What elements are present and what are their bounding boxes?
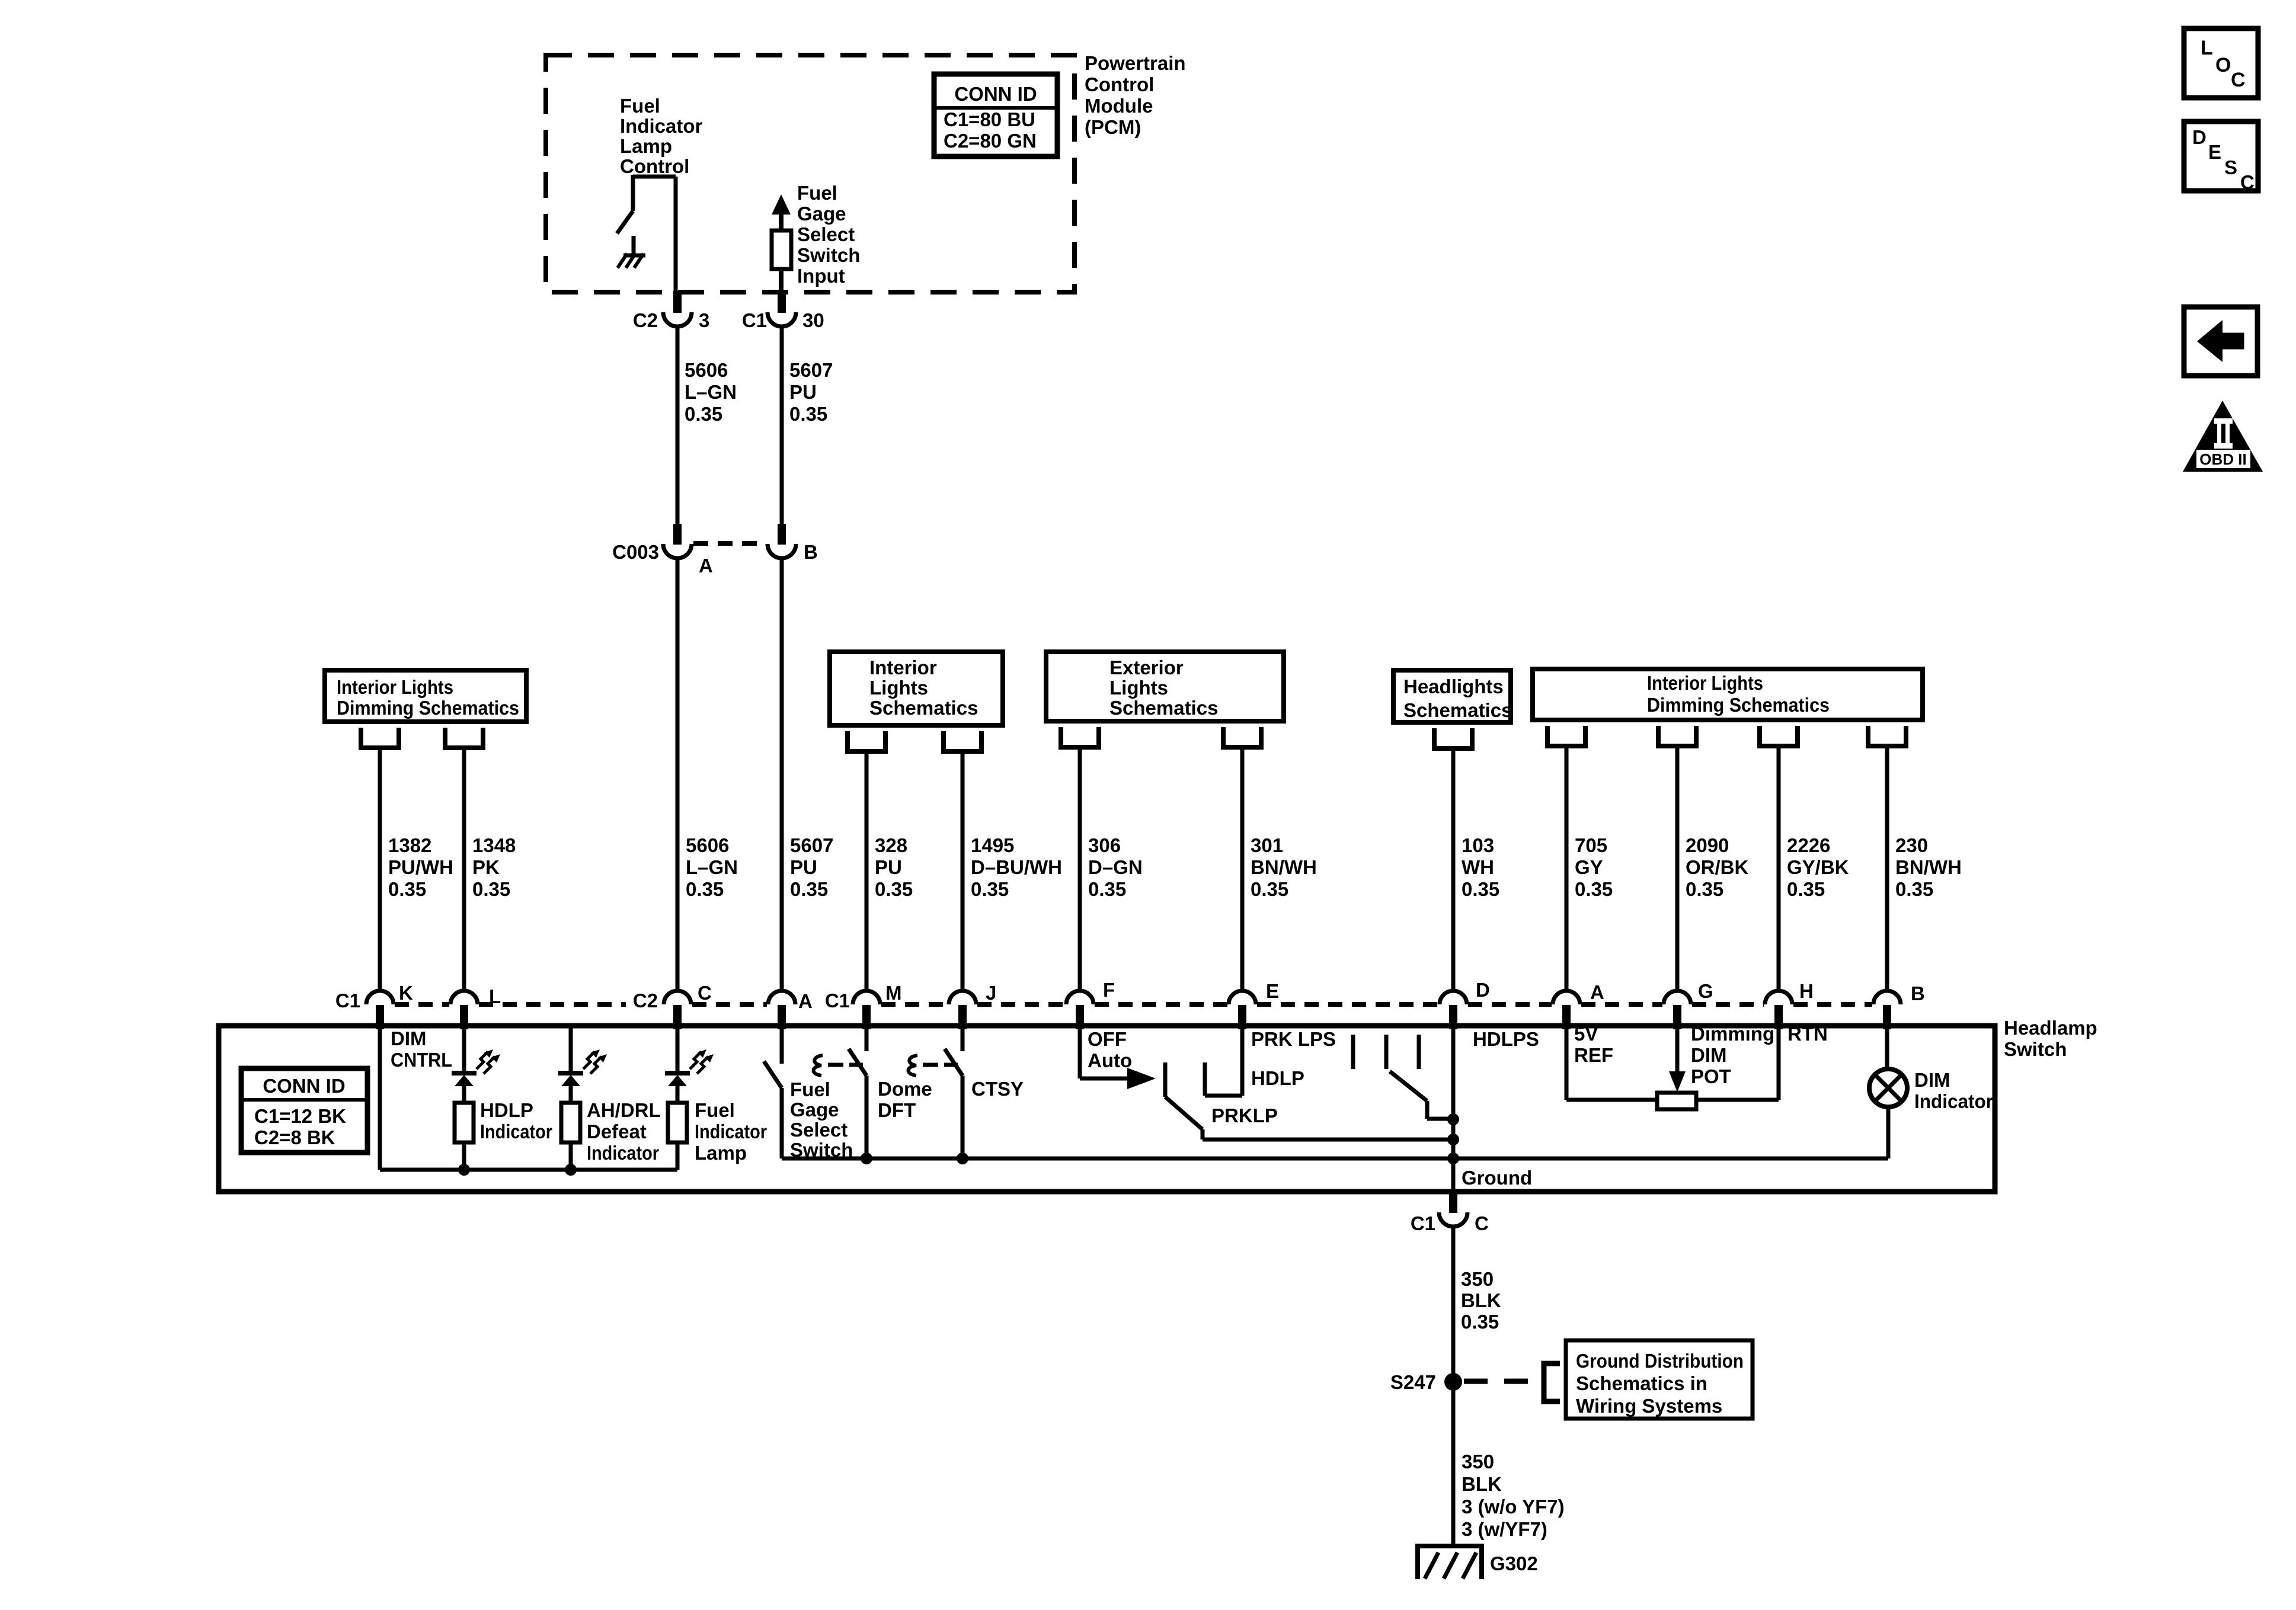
tab J wire <box>944 731 981 751</box>
svg-text:WH: WH <box>1462 856 1494 878</box>
svg-text:S247: S247 <box>1390 1371 1436 1393</box>
svg-text:C1: C1 <box>1411 1212 1435 1234</box>
connector pin D at x=2452 <box>1440 991 1467 1004</box>
svg-text:Gage: Gage <box>790 1099 839 1121</box>
svg-text:0.35: 0.35 <box>1462 878 1499 900</box>
svg-text:CNTRL: CNTRL <box>391 1049 452 1071</box>
svg-text:Fuel: Fuel <box>797 182 837 204</box>
svg-text:K: K <box>399 982 413 1004</box>
svg-text:AH/DRL: AH/DRL <box>587 1099 661 1121</box>
headlamp switch box <box>219 1026 1995 1192</box>
wire 2090 to pin G <box>1675 746 1680 991</box>
connector pin L at x=783 <box>450 991 478 1004</box>
svg-text:Fuel: Fuel <box>790 1078 830 1100</box>
icon OBD II triangle <box>2183 401 2263 472</box>
svg-text:Switch: Switch <box>2004 1038 2067 1060</box>
wire 350 BLK to S247 <box>1451 1227 1456 1382</box>
svg-text:0.35: 0.35 <box>875 878 913 900</box>
svg-text:F: F <box>1103 979 1115 1001</box>
svg-text:HDLPS: HDLPS <box>1473 1028 1539 1050</box>
svg-text:1382: 1382 <box>388 834 431 856</box>
svg-text:DIM: DIM <box>1691 1044 1727 1066</box>
svg-text:Interior Lights: Interior Lights <box>337 676 453 698</box>
svg-text:Defeat: Defeat <box>587 1121 647 1142</box>
svg-text:Schematics: Schematics <box>869 697 978 719</box>
wire 5606 C003 to headlamp switch C <box>676 558 680 991</box>
svg-text:OBD II: OBD II <box>2199 450 2246 468</box>
connector pin A at x=2643 <box>1553 991 1580 1004</box>
junction dot J at rail <box>957 1153 968 1164</box>
switch Fuel Gage Select (pin A) <box>780 1026 784 1064</box>
svg-text:0.35: 0.35 <box>1088 878 1126 900</box>
pin C1-30 connector <box>778 291 786 313</box>
svg-text:350: 350 <box>1462 1451 1494 1473</box>
wire 1348 to pin L <box>462 748 466 991</box>
ground G302 <box>1418 1544 1482 1548</box>
icon back arrow <box>2184 307 2257 376</box>
box Headlights Schematics <box>1393 670 1511 722</box>
wire 5606 PCM to C003 <box>676 326 680 526</box>
svg-text:0.35: 0.35 <box>1787 878 1825 900</box>
svg-text:BLK: BLK <box>1461 1289 1501 1311</box>
connector pin E at x=2096 <box>1229 991 1256 1004</box>
svg-text:E: E <box>2208 141 2221 163</box>
svg-text:5V: 5V <box>1574 1023 1598 1045</box>
CONN ID box (headlamp switch) <box>241 1068 367 1153</box>
connector pin C1-C ground <box>1449 1193 1457 1213</box>
tab E wire <box>1223 727 1261 747</box>
svg-text:Indicator: Indicator <box>620 115 703 137</box>
svg-text:PRKLP: PRKLP <box>1211 1105 1278 1126</box>
connector C003-A <box>673 524 682 545</box>
svg-text:A: A <box>798 990 813 1012</box>
svg-text:C003: C003 <box>612 541 659 563</box>
svg-text:Schematics: Schematics <box>1109 697 1218 719</box>
svg-text:DFT: DFT <box>878 1099 916 1121</box>
wire 328 to pin M <box>865 751 869 991</box>
svg-text:5606: 5606 <box>685 359 728 381</box>
resistor Fuel Gage Select Switch Input <box>772 194 791 215</box>
svg-text:C: C <box>698 982 712 1004</box>
svg-text:C: C <box>2231 69 2246 91</box>
box Interior Lights Dimming Schematics (left) <box>325 670 526 722</box>
junction dot L branch <box>458 1164 470 1176</box>
svg-text:0.35: 0.35 <box>472 878 510 900</box>
svg-text:Select: Select <box>790 1119 848 1141</box>
svg-text:Indicator: Indicator <box>480 1121 552 1142</box>
rotary position ticks <box>1351 1035 1355 1069</box>
tab L wire <box>445 728 483 748</box>
svg-text:Schematics in: Schematics in <box>1576 1372 1707 1394</box>
wire 306 to pin F <box>1078 747 1082 991</box>
svg-text:0.35: 0.35 <box>1895 878 1933 900</box>
svg-text:0.35: 0.35 <box>686 878 724 900</box>
svg-text:0.35: 0.35 <box>971 878 1009 900</box>
svg-text:C: C <box>1475 1212 1489 1234</box>
svg-text:A: A <box>699 555 713 577</box>
svg-text:RTN: RTN <box>1787 1023 1828 1045</box>
LED AH/DRL Defeat Indicator <box>569 1026 573 1074</box>
connector pin M at x=1462 <box>853 991 880 1004</box>
svg-text:Fuel: Fuel <box>695 1099 735 1121</box>
PCM dashed module box <box>546 55 1075 292</box>
svg-text:2226: 2226 <box>1787 834 1830 856</box>
svg-text:3 (w/YF7): 3 (w/YF7) <box>1462 1518 1547 1540</box>
svg-text:Headlights: Headlights <box>1403 676 1504 697</box>
contact OFF/Auto with blade to PRKLP <box>1163 1062 1168 1097</box>
svg-text:Dimming: Dimming <box>1691 1023 1774 1045</box>
svg-text:C2=80 GN: C2=80 GN <box>944 130 1037 152</box>
CONN ID box (PCM) <box>934 74 1057 156</box>
svg-text:103: 103 <box>1462 834 1494 856</box>
svg-text:POT: POT <box>1691 1065 1731 1087</box>
svg-text:DIM: DIM <box>391 1028 427 1049</box>
ground (PCM internal) <box>632 236 636 255</box>
svg-text:0.35: 0.35 <box>388 878 426 900</box>
svg-text:Schematics: Schematics <box>1403 699 1512 721</box>
svg-text:DIM: DIM <box>1914 1069 1950 1091</box>
svg-text:Control: Control <box>620 155 689 177</box>
icon DESC <box>2184 121 2258 191</box>
svg-text:Switch: Switch <box>797 244 860 266</box>
svg-text:0.35: 0.35 <box>789 403 827 425</box>
connector pin A at x=1319 <box>768 991 795 1004</box>
svg-text:G302: G302 <box>1490 1553 1538 1574</box>
svg-text:D: D <box>1476 979 1490 1001</box>
svg-text:D–BU/WH: D–BU/WH <box>971 856 1062 878</box>
svg-text:Headlamp: Headlamp <box>2004 1017 2097 1039</box>
svg-text:C1: C1 <box>335 990 360 1012</box>
wire 1495 to pin J <box>961 751 965 991</box>
box Exterior Lights Schematics <box>1046 652 1284 721</box>
wire 301 to pin E <box>1240 747 1245 991</box>
svg-text:BN/WH: BN/WH <box>1895 856 1962 878</box>
junction dot AH/DRL branch <box>565 1164 577 1176</box>
tab A wire <box>1547 726 1585 746</box>
svg-text:D–GN: D–GN <box>1088 856 1143 878</box>
svg-text:GY: GY <box>1575 856 1603 878</box>
svg-text:C2: C2 <box>633 309 658 331</box>
svg-text:306: 306 <box>1088 834 1121 856</box>
svg-text:(PCM): (PCM) <box>1085 116 1141 138</box>
svg-text:PRK LPS: PRK LPS <box>1251 1028 1336 1050</box>
box Interior Lights Schematics <box>830 652 1003 725</box>
svg-text:REF: REF <box>1574 1044 1613 1066</box>
svg-text:GY/BK: GY/BK <box>1787 856 1849 878</box>
tab M wire <box>848 731 885 751</box>
wire 350 BLK to G302 <box>1451 1382 1456 1546</box>
svg-text:Lamp: Lamp <box>620 135 672 157</box>
svg-text:Auto: Auto <box>1088 1049 1132 1071</box>
svg-text:C2=8 BK: C2=8 BK <box>254 1126 335 1148</box>
switch Dome DFT (pin M) <box>865 1026 869 1051</box>
tab B wire <box>1868 726 1906 746</box>
lamp DIM Indicator (pin B) <box>1885 1026 1889 1069</box>
svg-text:B: B <box>804 541 818 563</box>
svg-text:L–GN: L–GN <box>685 381 737 403</box>
contact HDLP (U shape) with pin E <box>1203 1062 1207 1096</box>
svg-text:Exterior: Exterior <box>1109 657 1184 678</box>
svg-text:L: L <box>489 985 501 1007</box>
connector pin J at x=1624 <box>949 991 976 1004</box>
svg-text:Dimming Schematics: Dimming Schematics <box>337 697 519 719</box>
connector pin B at x=3184 <box>1873 991 1901 1004</box>
potentiometer Dimming DIM POT with wiper arrow (pin G) <box>1675 1026 1680 1071</box>
blade headlamp rotary to pin D <box>1390 1071 1427 1101</box>
svg-text:J: J <box>986 982 996 1004</box>
svg-text:OR/BK: OR/BK <box>1686 856 1749 878</box>
connector pin C at x=1143 <box>664 991 691 1004</box>
svg-text:1348: 1348 <box>472 834 516 856</box>
svg-text:BN/WH: BN/WH <box>1251 856 1317 878</box>
svg-text:S: S <box>2224 156 2237 178</box>
svg-text:3: 3 <box>699 309 709 331</box>
svg-text:705: 705 <box>1575 834 1607 856</box>
svg-text:Ground Distribution: Ground Distribution <box>1576 1350 1744 1372</box>
svg-text:O: O <box>2215 54 2231 76</box>
svg-text:PK: PK <box>472 856 500 878</box>
dashed reference to ground distribution <box>1464 1379 1529 1384</box>
svg-text:HDLP: HDLP <box>480 1099 533 1121</box>
svg-text:C1: C1 <box>742 309 767 331</box>
svg-text:BLK: BLK <box>1462 1473 1502 1495</box>
tab K wire <box>361 728 399 748</box>
svg-text:328: 328 <box>875 834 907 856</box>
wire 103 to pin D <box>1451 748 1456 991</box>
connector C003-B <box>778 524 786 545</box>
indicator rail <box>380 1168 677 1172</box>
svg-text:C1=80 BU: C1=80 BU <box>944 108 1035 130</box>
svg-text:C1=12 BK: C1=12 BK <box>254 1105 346 1127</box>
svg-text:0.35: 0.35 <box>1251 878 1288 900</box>
ground bus rail <box>782 1157 1888 1161</box>
wire 5607 C003 to headlamp switch A <box>780 558 784 991</box>
wire 5607 PCM to C003 <box>780 326 784 526</box>
wire pin K to indicator rail <box>378 1026 382 1170</box>
svg-text:PU/WH: PU/WH <box>388 856 453 878</box>
mech link M-J <box>909 1055 918 1076</box>
svg-text:0.35: 0.35 <box>1575 878 1613 900</box>
svg-text:CONN ID: CONN ID <box>263 1075 345 1097</box>
wire pin A 5V REF to pot <box>1565 1026 1569 1100</box>
svg-text:C1: C1 <box>825 990 850 1012</box>
svg-text:PU: PU <box>790 856 817 878</box>
wire pin F with arrow (rotary wiper) <box>1078 1026 1082 1078</box>
svg-text:C2: C2 <box>633 990 658 1012</box>
svg-text:Module: Module <box>1085 95 1153 117</box>
box Ground Distribution Schematics in Wiring Systems <box>1566 1340 1753 1419</box>
wire 1382 to pin K <box>378 748 382 991</box>
svg-text:Fuel: Fuel <box>620 95 660 117</box>
svg-text:0.35: 0.35 <box>685 403 722 425</box>
connector pin G at x=2830 <box>1664 991 1691 1004</box>
svg-text:Indicator: Indicator <box>695 1121 767 1142</box>
wire 705 to pin A <box>1565 746 1569 991</box>
LED Fuel Indicator Lamp <box>676 1026 680 1074</box>
svg-text:Wiring Systems: Wiring Systems <box>1576 1395 1722 1417</box>
svg-text:0.35: 0.35 <box>1461 1311 1499 1333</box>
svg-text:Interior Lights: Interior Lights <box>1647 672 1763 694</box>
svg-text:PU: PU <box>875 856 902 878</box>
svg-text:5607: 5607 <box>790 834 833 856</box>
svg-text:CONN ID: CONN ID <box>954 83 1037 105</box>
dashed connector line C003 <box>693 541 766 546</box>
svg-text:H: H <box>1799 980 1814 1002</box>
svg-text:Input: Input <box>797 265 845 287</box>
svg-text:30: 30 <box>802 309 824 331</box>
svg-text:Gage: Gage <box>797 203 846 225</box>
LED HDLP Indicator <box>462 1026 466 1074</box>
svg-text:PU: PU <box>789 381 817 403</box>
svg-text:Lamp: Lamp <box>695 1142 747 1164</box>
svg-text:3 (w/o YF7): 3 (w/o YF7) <box>1462 1496 1565 1518</box>
icon LOC <box>2184 28 2258 98</box>
svg-text:5607: 5607 <box>789 359 833 381</box>
svg-text:Lights: Lights <box>1109 677 1168 699</box>
svg-text:0.35: 0.35 <box>790 878 828 900</box>
svg-text:5606: 5606 <box>686 834 729 856</box>
svg-text:Indicator: Indicator <box>1914 1090 1993 1112</box>
svg-text:CTSY: CTSY <box>971 1078 1024 1100</box>
pin C2-3 connector <box>673 291 682 313</box>
svg-text:Interior: Interior <box>869 657 937 678</box>
junction dot M at rail <box>861 1153 872 1164</box>
wire 230 to pin B <box>1885 746 1889 991</box>
connector pin F at x=1822 <box>1066 991 1093 1004</box>
connector pin K at x=641 <box>366 991 394 1004</box>
svg-text:A: A <box>1590 981 1604 1003</box>
svg-text:Powertrain: Powertrain <box>1085 52 1186 74</box>
wire PRKLP output <box>1203 1138 1453 1142</box>
svg-text:D: D <box>2192 126 2207 148</box>
svg-text:Control: Control <box>1085 73 1154 95</box>
tab D wire <box>1434 728 1472 748</box>
tab F wire <box>1061 727 1099 747</box>
connector pin H at x=3001 <box>1765 991 1792 1004</box>
svg-text:E: E <box>1266 980 1279 1002</box>
svg-text:HDLP: HDLP <box>1251 1067 1304 1089</box>
svg-text:Dimming Schematics: Dimming Schematics <box>1647 694 1830 716</box>
tab H wire <box>1760 726 1798 746</box>
mech link A-M <box>814 1055 823 1076</box>
svg-text:2090: 2090 <box>1686 834 1729 856</box>
splice S247 <box>1444 1373 1462 1391</box>
svg-text:L–GN: L–GN <box>686 856 738 878</box>
svg-text:1495: 1495 <box>971 834 1014 856</box>
svg-text:Ground: Ground <box>1462 1167 1532 1189</box>
wire pot to pin H RTN <box>1696 1098 1779 1102</box>
dashed connector line (headlamp switch) <box>395 1002 449 1007</box>
svg-text:C: C <box>2240 171 2255 193</box>
svg-text:Dome: Dome <box>878 1078 932 1100</box>
svg-text:0.35: 0.35 <box>1686 878 1723 900</box>
switch CTSY (pin J) <box>961 1026 965 1051</box>
svg-text:350: 350 <box>1461 1268 1494 1290</box>
svg-text:301: 301 <box>1251 834 1283 856</box>
wire pin D down to ground bus <box>1451 1026 1456 1192</box>
switch Fuel Indicator Lamp Control driver <box>633 175 676 179</box>
svg-text:G: G <box>1698 980 1713 1002</box>
svg-text:L: L <box>2201 37 2213 59</box>
box Interior Lights Dimming Schematics (right) <box>1533 669 1923 720</box>
svg-text:M: M <box>885 982 902 1004</box>
tab G wire <box>1658 726 1696 746</box>
svg-text:Indicator: Indicator <box>587 1142 659 1164</box>
svg-text:OFF: OFF <box>1088 1028 1127 1050</box>
wire 2226 to pin H <box>1777 746 1781 991</box>
svg-text:Lights: Lights <box>869 677 928 699</box>
svg-text:Select: Select <box>797 223 855 245</box>
svg-text:B: B <box>1911 982 1925 1004</box>
wire C2-3 inside PCM <box>674 177 678 292</box>
svg-text:230: 230 <box>1895 834 1928 856</box>
